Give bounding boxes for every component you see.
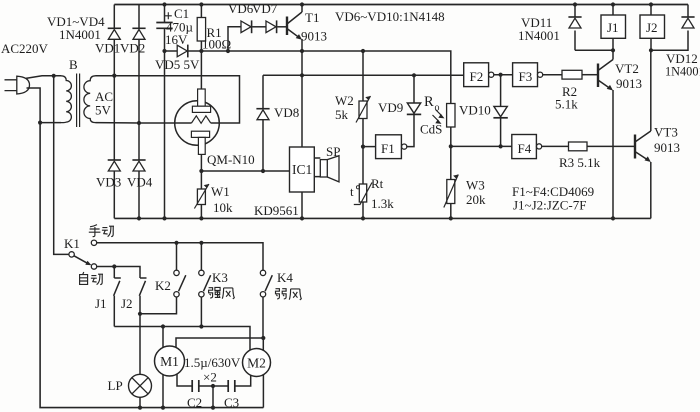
diode VD6 — [241, 21, 251, 33]
node mains top / K1 feed — [52, 74, 56, 78]
svg-text:9013: 9013 — [654, 140, 680, 155]
node top rail / C1 — [162, 2, 166, 6]
node rail caps — [211, 406, 215, 410]
svg-text:VD3: VD3 — [96, 175, 121, 190]
wire sensor out to IC1 — [201, 170, 289, 172]
resistor R2 — [562, 70, 582, 79]
capacitor C2 — [192, 380, 199, 392]
node W2 / 5V row — [361, 49, 365, 53]
wire VD2 column — [138, 5, 140, 124]
svg-text:M2: M2 — [247, 356, 266, 371]
switch K2 top contact — [174, 270, 179, 275]
wire T1 emitter column — [301, 39, 303, 75]
wire plug top to transformer — [26, 76, 61, 79]
gate F1 — [376, 135, 402, 159]
svg-text:W3: W3 — [466, 178, 485, 193]
svg-text:B: B — [69, 57, 78, 72]
light arrows for CdS — [433, 110, 442, 121]
node VD2 / secondary bottom — [137, 121, 141, 125]
diode VD12 — [687, 5, 689, 18]
wire M1 top lead — [162, 327, 164, 348]
node J1 / VT2 collector — [611, 48, 615, 52]
transformer B core — [77, 74, 80, 128]
label ruo-feng (weak wind) — [276, 289, 287, 299]
wire neutral rail — [40, 123, 263, 408]
switch K2 arm — [179, 275, 186, 291]
svg-text:16V: 16V — [165, 32, 188, 47]
node weak bus / K4 — [261, 336, 265, 340]
node auto bus / J1 — [112, 264, 116, 268]
node C1/VD5 — [162, 49, 166, 53]
node gnd W3 — [449, 216, 453, 220]
wire VD3 column — [113, 76, 115, 219]
diode VD5 — [177, 45, 187, 57]
svg-text:VD6~VD10:1N4148: VD6~VD10:1N4148 — [335, 9, 445, 24]
wire ground rail — [114, 217, 651, 219]
label zi-dong (auto) — [80, 272, 88, 284]
diode VD10 — [494, 106, 507, 116]
gate F1 output bubble — [402, 144, 407, 149]
wire plug bottom — [27, 88, 41, 123]
svg-text:Rt: Rt — [371, 176, 384, 191]
wire F4 input row — [451, 145, 512, 147]
node W2 / F1 — [361, 145, 365, 149]
svg-text:J1: J1 — [607, 20, 619, 35]
svg-text:VD6: VD6 — [228, 1, 254, 16]
wire IC1 to speaker — [314, 158, 320, 177]
relay contact J2 — [139, 278, 146, 374]
wire VT2 emitter column — [612, 90, 614, 218]
diode VD2 — [132, 27, 145, 29]
wire auto bus — [97, 267, 140, 279]
svg-text:100Ω: 100Ω — [202, 37, 231, 52]
svg-text:1.3k: 1.3k — [371, 196, 394, 211]
wire W3 column — [450, 146, 452, 218]
wire VD7 to T1 base — [277, 26, 287, 28]
capacitor C1 polarity + — [165, 12, 172, 19]
svg-text:J2: J2 — [121, 296, 133, 311]
gas sensor QM-N10 envelope — [175, 101, 220, 146]
capacitor C1 plates — [156, 23, 172, 29]
wire CdS to W3 node — [450, 127, 452, 146]
transformer B secondary winding — [84, 76, 96, 123]
wire F3 to R2 — [543, 74, 562, 76]
switch K1 arm — [74, 256, 88, 263]
svg-text:VD9: VD9 — [378, 100, 403, 115]
switch K1 auto contact — [91, 264, 96, 269]
wire K3 top — [200, 243, 202, 270]
wire secondary bottom / heater left — [96, 122, 192, 124]
node mains bottom / primary — [38, 121, 42, 125]
wire VD1 column — [113, 5, 115, 76]
wire M1 aux lead — [177, 374, 192, 386]
wire F4 to R3 — [542, 145, 569, 147]
wire VD10 column — [500, 75, 502, 146]
svg-text:VD7: VD7 — [252, 1, 278, 16]
node IC1 column / 5V row — [300, 73, 304, 77]
node gnd C1 — [162, 216, 166, 220]
svg-text:9013: 9013 — [301, 29, 327, 44]
wire weak bus — [176, 338, 263, 351]
wire C1 column — [164, 5, 166, 219]
svg-text:20k: 20k — [466, 192, 486, 207]
gas sensor top pin — [198, 89, 206, 106]
wire 5V distribution row — [263, 74, 464, 76]
lamp LP — [129, 374, 152, 397]
svg-text:LP: LP — [108, 378, 123, 393]
wire W2 to F1 input — [363, 146, 376, 148]
svg-text:10k: 10k — [213, 200, 233, 215]
svg-text:J1: J1 — [95, 296, 107, 311]
node manual bus / K2 — [174, 241, 178, 245]
potentiometer W3 — [447, 180, 455, 204]
svg-text:W2: W2 — [335, 93, 354, 108]
speaker SP — [320, 160, 327, 177]
wire K4 bottom — [262, 297, 264, 338]
wire VT3 collector — [650, 50, 652, 131]
wire F2 to F3 — [494, 74, 513, 76]
wire M1 bottom to ground — [162, 374, 164, 407]
node F2 out / VD10 — [499, 73, 503, 77]
wire IC1 top pin — [301, 75, 303, 147]
svg-text:M1: M1 — [160, 354, 179, 369]
relay coil J2 — [640, 15, 665, 38]
svg-text:K1: K1 — [64, 236, 80, 251]
wire K3 bottom — [200, 297, 202, 327]
node VD1 / secondary top — [112, 74, 116, 78]
node VD10 / F4 row — [499, 144, 503, 148]
switch K4 top contact — [260, 270, 265, 275]
wire VD6-VD7 — [252, 26, 266, 28]
node VD6 branch — [226, 49, 230, 53]
node CdS / W3 / F4 row — [449, 144, 453, 148]
node sensor / W1 — [199, 169, 203, 173]
svg-text:KD9561: KD9561 — [254, 203, 299, 218]
svg-text:1N4001: 1N4001 — [665, 65, 700, 79]
svg-text:F2: F2 — [470, 69, 484, 84]
svg-text:VD2: VD2 — [120, 41, 145, 56]
node top rail / J2 — [649, 2, 653, 6]
diode VD4 — [132, 159, 145, 161]
wire 5V zener row — [165, 51, 451, 104]
wire J1 bottom — [612, 38, 614, 50]
wire C3 to M2 — [235, 375, 251, 386]
svg-text:T1: T1 — [305, 10, 319, 25]
node top rail / VD11 — [573, 2, 577, 6]
svg-text:VD1: VD1 — [95, 41, 120, 56]
switch K3 top contact — [199, 270, 204, 275]
wire manual bus — [97, 243, 263, 270]
wire VD11 to J1 bottom — [575, 49, 613, 51]
ic IC1 — [290, 147, 315, 192]
svg-text:J1~J2:JZC-7F: J1~J2:JZC-7F — [513, 198, 587, 213]
transistor VT2 — [597, 64, 599, 88]
node gnd VD4 — [137, 216, 141, 220]
diode VD7 — [266, 21, 276, 33]
svg-text:5k: 5k — [335, 107, 349, 122]
node gnd W1 — [199, 216, 203, 220]
node VD9 / 5V row — [412, 73, 416, 77]
wire T1 collector — [301, 5, 303, 13]
gate F4 — [512, 135, 537, 159]
svg-text:VD4: VD4 — [127, 175, 153, 190]
svg-text:VD10: VD10 — [459, 103, 491, 118]
wire K2 top — [176, 243, 178, 270]
wire J2 bottom — [650, 38, 652, 50]
node capacitor junction — [211, 384, 215, 388]
gas sensor bottom electrode — [191, 131, 209, 137]
node gnd IC1 — [300, 216, 304, 220]
svg-text:SP: SP — [326, 144, 340, 159]
wire LP bottom — [139, 397, 141, 407]
node top rail / T1 collector — [300, 2, 304, 6]
wire mains live column — [54, 76, 69, 255]
relay coil J1 — [601, 15, 626, 38]
svg-text:VT2: VT2 — [615, 61, 639, 76]
svg-text:1N4001: 1N4001 — [518, 28, 560, 43]
svg-text:K2: K2 — [155, 278, 171, 293]
wire C2 to node — [199, 385, 228, 387]
motor M2 — [243, 349, 271, 377]
node J2 / K2 link — [138, 312, 142, 316]
wire R1 column — [200, 5, 202, 90]
wire VD9 top — [413, 75, 415, 103]
switch K1 manual contact — [91, 240, 96, 245]
node top rail / R1 — [199, 2, 203, 6]
ac plug P — [5, 76, 30, 94]
wire VD6 branch — [228, 27, 241, 51]
svg-text:W1: W1 — [211, 184, 230, 199]
wire VT3 emitter — [650, 162, 652, 218]
gate F2 — [464, 63, 489, 87]
node gnd Rt — [361, 216, 365, 220]
wire transformer primary bottom — [40, 122, 61, 124]
switch K1 common — [69, 252, 74, 257]
svg-text:5.1k: 5.1k — [555, 97, 578, 112]
wire J2-K2 link — [140, 297, 177, 314]
svg-text:9013: 9013 — [616, 76, 642, 91]
switch K3 bottom contact — [199, 292, 204, 297]
diode VD9 — [407, 103, 420, 113]
node T1 emitter / 5V row — [300, 49, 304, 53]
svg-text:×2: ×2 — [203, 370, 217, 385]
resistor R1 — [197, 18, 205, 42]
wire secondary top to heater right — [96, 76, 240, 123]
photoresistor Ro CdS — [447, 104, 455, 128]
gate F3 — [513, 63, 538, 87]
wire W2 column — [362, 51, 364, 218]
node VD8 / sensor out — [261, 169, 265, 173]
node rail LP — [138, 406, 142, 410]
svg-text:o: o — [435, 103, 440, 114]
svg-text:QM-N10: QM-N10 — [207, 152, 255, 167]
wire VD8 column — [262, 75, 264, 171]
diode VD8 — [256, 108, 269, 110]
wire R2 to VT2 base — [582, 74, 598, 76]
node top rail / J1 — [611, 2, 615, 6]
svg-text:1.5µ/630V: 1.5µ/630V — [184, 355, 241, 370]
wire F1 out to VD9 — [407, 114, 414, 147]
wire W1 column — [200, 171, 202, 218]
diode VD1 — [108, 27, 121, 29]
svg-text:J2: J2 — [646, 20, 658, 35]
wire sensor bottom pin — [200, 154, 202, 171]
potentiometer W1 — [197, 189, 205, 205]
gate F2 output bubble — [489, 72, 494, 77]
svg-text:VT3: VT3 — [654, 125, 678, 140]
node R1/VD5 — [199, 49, 203, 53]
wire R3 to VT3 base — [587, 145, 635, 147]
switch K4 bottom contact — [260, 292, 265, 297]
relay contact J1 — [114, 267, 121, 327]
motor M1 — [155, 346, 185, 376]
resistor R3 — [569, 142, 588, 151]
gate F3 output bubble — [538, 72, 543, 77]
wire M2 bottom to rail end — [262, 375, 264, 408]
wire top +V rail — [114, 4, 688, 6]
switch K4 arm — [265, 275, 272, 291]
svg-text:CdS: CdS — [420, 122, 442, 137]
node rail M1 — [161, 406, 165, 410]
switch K2 bottom contact — [174, 292, 179, 297]
transistor VT3 — [634, 135, 636, 159]
svg-text:F1: F1 — [381, 141, 395, 156]
svg-text:K4: K4 — [277, 270, 293, 285]
transformer B primary winding — [61, 76, 71, 123]
node J2 / VT3 collector — [649, 48, 653, 52]
label shou-dong (manual) — [89, 225, 101, 237]
transistor T1 — [286, 17, 288, 36]
svg-text:K3: K3 — [212, 270, 228, 285]
label qiang-feng (strong wind) — [209, 287, 221, 298]
switch K3 arm — [204, 275, 211, 291]
wire J2 top — [650, 5, 652, 16]
potentiometer W2 — [359, 101, 367, 119]
svg-text:VD5 5V: VD5 5V — [155, 57, 200, 72]
diode VD3 — [108, 159, 121, 161]
svg-text:AC220V: AC220V — [1, 41, 49, 56]
wire strong bus — [114, 327, 250, 351]
svg-text:VD8: VD8 — [274, 105, 299, 120]
capacitor C3 — [228, 380, 235, 392]
wire IC1 bottom pin — [301, 192, 303, 218]
wire VD4 column — [138, 123, 140, 218]
thermistor Rt — [359, 184, 366, 202]
diode VD11 — [574, 5, 576, 18]
svg-text:R3 5.1k: R3 5.1k — [559, 155, 601, 170]
node gnd VT2 — [611, 216, 615, 220]
svg-text:IC1: IC1 — [292, 162, 312, 177]
svg-text:5V: 5V — [95, 103, 112, 118]
svg-text:R: R — [424, 94, 434, 110]
wire cap node to rail — [212, 386, 214, 408]
gas sensor heater — [192, 116, 211, 124]
wire VT2 collector — [612, 50, 614, 59]
wire J1 top — [612, 5, 614, 16]
gate F4 output bubble — [537, 144, 542, 149]
svg-text:F4: F4 — [518, 141, 532, 156]
node strong bus / K3 — [199, 324, 203, 328]
svg-text:F3: F3 — [519, 69, 533, 84]
node strong bus / M1 — [161, 324, 165, 328]
svg-text:t: t — [350, 184, 354, 199]
node manual bus / K3 — [199, 241, 203, 245]
